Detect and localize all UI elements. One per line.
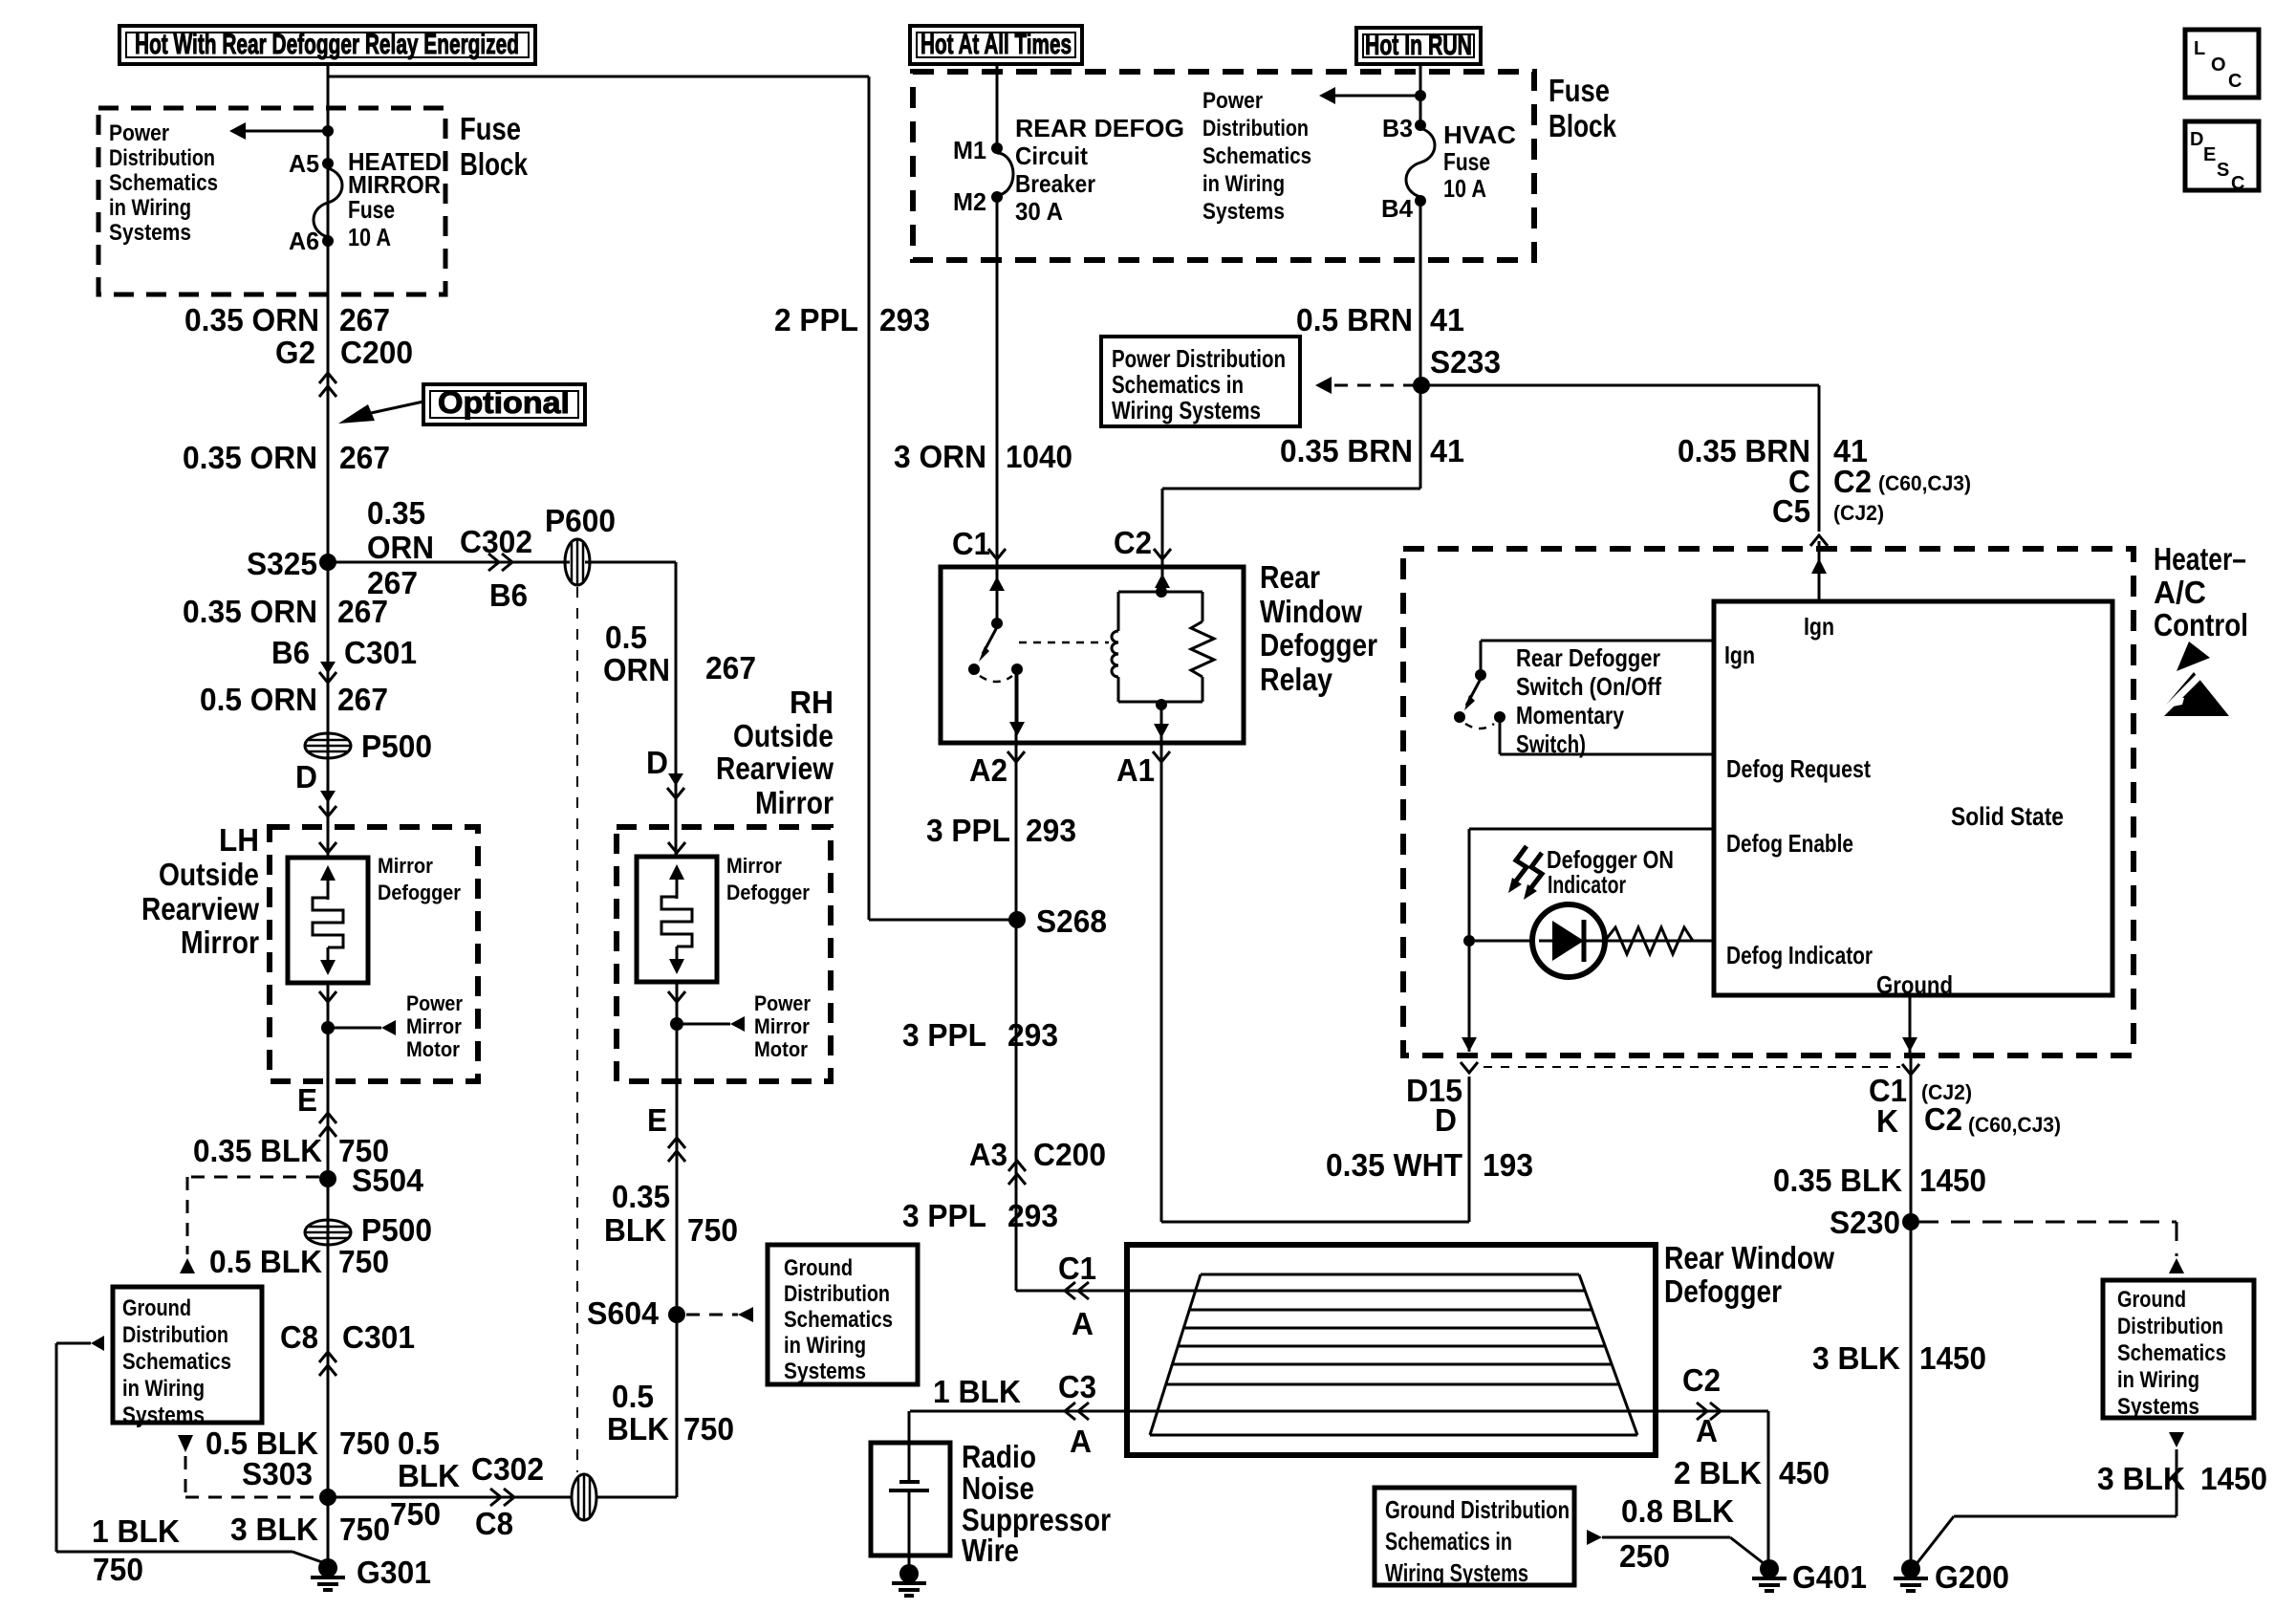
svg-text:Mirror: Mirror: [754, 1014, 810, 1038]
svg-text:0.35: 0.35: [612, 1179, 670, 1214]
svg-text:Wire: Wire: [962, 1533, 1019, 1568]
svg-text:in Wiring: in Wiring: [109, 195, 191, 221]
svg-text:Heater–: Heater–: [2154, 541, 2246, 577]
svg-text:0.35 ORN: 0.35 ORN: [184, 302, 319, 337]
svg-text:3 BLK: 3 BLK: [230, 1512, 318, 1547]
svg-text:750: 750: [683, 1411, 734, 1447]
svg-text:ORN: ORN: [367, 530, 434, 565]
svg-text:S268: S268: [1036, 903, 1107, 939]
svg-text:A6: A6: [289, 227, 319, 255]
svg-text:Distribution: Distribution: [1202, 116, 1309, 141]
svg-text:Rearview: Rearview: [716, 751, 834, 786]
svg-text:Defogger: Defogger: [1260, 627, 1377, 663]
svg-text:0.5 ORN: 0.5 ORN: [200, 682, 317, 717]
svg-text:0.35 BRN: 0.35 BRN: [1280, 433, 1413, 468]
svg-text:LH: LH: [219, 822, 259, 858]
svg-text:E: E: [2203, 144, 2216, 165]
svg-text:Solid State: Solid State: [1951, 802, 2064, 831]
svg-text:Schematics: Schematics: [2117, 1340, 2226, 1366]
svg-text:Power: Power: [1202, 88, 1263, 114]
svg-text:41: 41: [1430, 433, 1464, 468]
svg-text:C: C: [2228, 71, 2242, 92]
svg-text:Block: Block: [1549, 108, 1617, 143]
svg-text:0.5 BRN: 0.5 BRN: [1296, 302, 1413, 337]
svg-text:Breaker: Breaker: [1015, 169, 1095, 198]
svg-text:Systems: Systems: [784, 1359, 866, 1384]
svg-text:3 PPL: 3 PPL: [902, 1198, 986, 1233]
svg-text:D: D: [2190, 129, 2203, 150]
svg-text:(C60,CJ3): (C60,CJ3): [1968, 1113, 2061, 1137]
svg-text:293: 293: [879, 302, 930, 337]
svg-text:P600: P600: [545, 503, 616, 538]
svg-text:Switch): Switch): [1516, 729, 1586, 758]
svg-text:Schematics: Schematics: [122, 1349, 231, 1375]
svg-text:750: 750: [687, 1212, 738, 1248]
svg-text:Ground: Ground: [1876, 970, 1953, 999]
svg-text:3 BLK: 3 BLK: [2097, 1461, 2185, 1496]
svg-text:1450: 1450: [2200, 1461, 2267, 1496]
svg-text:Distribution: Distribution: [2117, 1314, 2223, 1339]
svg-text:3 PPL: 3 PPL: [926, 813, 1010, 848]
svg-text:C200: C200: [340, 335, 413, 370]
svg-text:Distribution: Distribution: [109, 145, 215, 171]
svg-text:A: A: [1072, 1306, 1094, 1341]
svg-text:Hot In RUN: Hot In RUN: [1365, 30, 1472, 61]
svg-text:Optional: Optional: [438, 385, 570, 420]
svg-text:1 BLK: 1 BLK: [92, 1513, 180, 1549]
svg-text:A2: A2: [969, 752, 1007, 788]
svg-text:S604: S604: [587, 1295, 660, 1331]
svg-text:Mirror: Mirror: [181, 925, 259, 960]
svg-text:C1: C1: [952, 526, 990, 561]
svg-text:C5: C5: [1772, 493, 1810, 529]
svg-text:G401: G401: [1792, 1559, 1867, 1595]
svg-text:C2: C2: [1682, 1362, 1721, 1398]
svg-text:Defog Enable: Defog Enable: [1726, 829, 1853, 858]
svg-text:3 BLK: 3 BLK: [1812, 1340, 1900, 1376]
svg-text:Fuse: Fuse: [348, 195, 395, 224]
svg-text:0.35 BLK: 0.35 BLK: [1773, 1163, 1902, 1198]
svg-text:Motor: Motor: [406, 1037, 460, 1061]
svg-text:Power Distribution: Power Distribution: [1112, 344, 1286, 373]
svg-text:10 A: 10 A: [1443, 174, 1486, 203]
svg-text:Indicator: Indicator: [1548, 870, 1626, 899]
svg-text:Power: Power: [754, 991, 811, 1015]
svg-text:S233: S233: [1430, 344, 1501, 380]
svg-text:750: 750: [339, 1512, 390, 1547]
svg-text:3 ORN: 3 ORN: [894, 439, 986, 474]
svg-text:0.5 BLK: 0.5 BLK: [209, 1244, 322, 1279]
svg-text:E: E: [647, 1102, 667, 1138]
svg-text:B6: B6: [271, 635, 310, 670]
svg-text:Ground: Ground: [2117, 1287, 2186, 1313]
svg-text:Rearview: Rearview: [141, 891, 259, 926]
svg-text:1450: 1450: [1919, 1163, 1986, 1198]
svg-text:B3: B3: [1382, 114, 1413, 142]
svg-text:3 PPL: 3 PPL: [902, 1017, 986, 1053]
svg-text:in Wiring: in Wiring: [784, 1333, 866, 1359]
svg-text:BLK: BLK: [607, 1411, 669, 1447]
svg-text:M1: M1: [953, 136, 986, 164]
svg-text:M2: M2: [953, 187, 986, 216]
svg-text:Systems: Systems: [2117, 1394, 2199, 1420]
svg-text:Fuse: Fuse: [1549, 73, 1610, 108]
svg-text:Schematics: Schematics: [784, 1307, 893, 1333]
svg-text:B4: B4: [1381, 194, 1414, 223]
svg-text:Schematics in: Schematics in: [1112, 370, 1244, 399]
svg-text:(CJ2): (CJ2): [1833, 501, 1884, 525]
svg-text:0.35 WHT: 0.35 WHT: [1326, 1147, 1462, 1183]
svg-text:C3: C3: [1058, 1369, 1096, 1404]
svg-text:Block: Block: [460, 146, 529, 182]
svg-text:193: 193: [1483, 1147, 1533, 1183]
svg-text:ORN: ORN: [603, 652, 670, 687]
svg-text:A: A: [1696, 1413, 1718, 1448]
svg-text:C200: C200: [1033, 1137, 1106, 1172]
svg-text:Motor: Motor: [754, 1037, 808, 1061]
svg-text:Radio: Radio: [962, 1439, 1036, 1474]
svg-text:A1: A1: [1116, 752, 1155, 788]
svg-text:Defog Indicator: Defog Indicator: [1726, 941, 1873, 969]
svg-text:C2: C2: [1924, 1101, 1962, 1137]
svg-text:K: K: [1876, 1103, 1898, 1139]
svg-text:Hot With Rear Defogger Relay E: Hot With Rear Defogger Relay Energized: [135, 29, 519, 60]
svg-text:REAR DEFOG: REAR DEFOG: [1015, 114, 1184, 142]
svg-text:A: A: [1070, 1424, 1092, 1459]
svg-text:Defogger: Defogger: [1664, 1273, 1782, 1309]
svg-text:BLK: BLK: [604, 1212, 666, 1248]
svg-text:Rear Defogger: Rear Defogger: [1516, 643, 1660, 672]
svg-text:Distribution: Distribution: [122, 1322, 228, 1348]
svg-text:Hot At All Times: Hot At All Times: [921, 29, 1072, 60]
svg-text:O: O: [2211, 54, 2226, 76]
svg-text:Mirror: Mirror: [726, 854, 782, 878]
svg-text:2 PPL: 2 PPL: [774, 302, 858, 337]
svg-text:Control: Control: [2154, 607, 2248, 642]
svg-text:Wiring Systems: Wiring Systems: [1385, 1558, 1528, 1587]
svg-text:0.5: 0.5: [605, 620, 647, 655]
svg-text:1 BLK: 1 BLK: [933, 1374, 1021, 1409]
svg-text:Systems: Systems: [122, 1403, 205, 1428]
svg-text:C301: C301: [342, 1319, 415, 1355]
svg-text:Ground: Ground: [122, 1295, 191, 1321]
svg-text:Systems: Systems: [109, 220, 191, 246]
svg-text:G200: G200: [1935, 1559, 2009, 1595]
svg-text:L: L: [2194, 38, 2205, 59]
svg-text:Relay: Relay: [1260, 662, 1333, 697]
svg-text:Switch (On/Off: Switch (On/Off: [1516, 672, 1661, 701]
svg-text:Systems: Systems: [1202, 199, 1285, 225]
svg-text:Rear Window: Rear Window: [1664, 1240, 1834, 1275]
svg-text:Mirror: Mirror: [406, 1014, 462, 1038]
svg-text:267: 267: [339, 440, 390, 475]
svg-text:Schematics: Schematics: [109, 170, 218, 196]
svg-text:G2: G2: [275, 335, 315, 370]
svg-text:A3: A3: [969, 1137, 1007, 1172]
svg-text:Schematics: Schematics: [1202, 143, 1311, 169]
svg-text:P500: P500: [361, 1212, 432, 1248]
svg-text:Ign: Ign: [1804, 612, 1834, 641]
svg-text:267: 267: [337, 682, 388, 717]
svg-text:Defog Request: Defog Request: [1726, 754, 1871, 783]
svg-text:Power: Power: [109, 120, 169, 146]
svg-text:in Wiring: in Wiring: [2117, 1367, 2199, 1393]
svg-text:C302: C302: [471, 1451, 544, 1487]
svg-text:S: S: [2217, 160, 2229, 181]
svg-text:P500: P500: [361, 729, 432, 764]
svg-text:0.5: 0.5: [612, 1379, 654, 1414]
svg-text:250: 250: [1619, 1538, 1670, 1574]
svg-text:0.35 BLK: 0.35 BLK: [193, 1133, 322, 1168]
svg-text:1450: 1450: [1919, 1340, 1986, 1376]
svg-text:Fuse: Fuse: [460, 111, 521, 146]
svg-text:Circuit: Circuit: [1015, 141, 1088, 170]
svg-text:C1: C1: [1058, 1251, 1096, 1286]
svg-text:in Wiring: in Wiring: [1202, 171, 1285, 197]
svg-text:Ground Distribution: Ground Distribution: [1385, 1495, 1570, 1524]
svg-text:A5: A5: [289, 149, 319, 178]
svg-text:D: D: [1435, 1102, 1457, 1138]
svg-text:B6: B6: [489, 577, 528, 613]
svg-text:S230: S230: [1830, 1205, 1900, 1240]
svg-text:293: 293: [1007, 1017, 1058, 1053]
svg-text:Noise: Noise: [962, 1470, 1034, 1506]
svg-text:RH: RH: [790, 685, 834, 720]
svg-text:750: 750: [93, 1552, 143, 1587]
svg-text:D: D: [646, 745, 668, 780]
svg-text:Defogger: Defogger: [726, 881, 810, 904]
svg-text:750: 750: [390, 1496, 441, 1532]
svg-text:D: D: [295, 759, 317, 794]
svg-text:0.8 BLK: 0.8 BLK: [1621, 1493, 1734, 1529]
svg-text:Mirror: Mirror: [755, 785, 834, 820]
svg-text:HVAC: HVAC: [1443, 120, 1516, 149]
svg-text:1040: 1040: [1006, 439, 1072, 474]
svg-text:Power: Power: [406, 991, 463, 1015]
svg-text:G301: G301: [357, 1555, 431, 1590]
svg-text:C302: C302: [460, 524, 532, 559]
svg-text:30 A: 30 A: [1015, 197, 1063, 226]
svg-text:41: 41: [1430, 302, 1464, 337]
svg-text:Window: Window: [1260, 594, 1362, 629]
svg-text:0.35 ORN: 0.35 ORN: [183, 440, 317, 475]
svg-text:Schematics in: Schematics in: [1385, 1527, 1512, 1556]
svg-text:Ign: Ign: [1724, 641, 1755, 669]
svg-text:Rear: Rear: [1260, 559, 1320, 595]
svg-text:Outside: Outside: [733, 718, 834, 753]
svg-text:750: 750: [338, 1244, 389, 1279]
svg-text:C8: C8: [475, 1506, 513, 1541]
svg-text:C301: C301: [344, 635, 417, 670]
svg-text:267: 267: [337, 594, 388, 629]
svg-text:C2: C2: [1114, 525, 1152, 560]
svg-text:267: 267: [339, 302, 390, 337]
svg-text:E: E: [297, 1082, 317, 1118]
svg-text:Ground: Ground: [784, 1255, 853, 1281]
svg-text:750: 750: [339, 1425, 390, 1461]
svg-text:S303: S303: [242, 1456, 313, 1491]
svg-text:Outside: Outside: [159, 857, 259, 892]
svg-text:A/C: A/C: [2154, 575, 2206, 610]
svg-text:C2: C2: [1833, 464, 1872, 499]
svg-text:10 A: 10 A: [348, 223, 391, 251]
svg-text:S325: S325: [247, 546, 317, 581]
svg-text:(C60,CJ3): (C60,CJ3): [1878, 471, 1971, 495]
svg-text:in Wiring: in Wiring: [122, 1376, 205, 1402]
svg-text:Fuse: Fuse: [1443, 147, 1490, 176]
svg-text:0.35 ORN: 0.35 ORN: [183, 594, 317, 629]
svg-text:S504: S504: [352, 1163, 424, 1198]
svg-text:C8: C8: [280, 1319, 318, 1355]
svg-text:0.5: 0.5: [398, 1425, 440, 1461]
svg-text:293: 293: [1007, 1198, 1058, 1233]
svg-text:Distribution: Distribution: [784, 1281, 890, 1307]
svg-text:267: 267: [705, 650, 756, 685]
svg-text:Mirror: Mirror: [378, 854, 433, 878]
svg-text:293: 293: [1026, 813, 1076, 848]
svg-text:BLK: BLK: [398, 1458, 460, 1493]
svg-text:Defogger: Defogger: [378, 881, 461, 904]
svg-text:2 BLK: 2 BLK: [1674, 1455, 1762, 1490]
svg-text:Momentary: Momentary: [1516, 701, 1624, 729]
svg-text:Wiring Systems: Wiring Systems: [1112, 396, 1261, 424]
svg-text:C: C: [2231, 173, 2244, 194]
svg-text:450: 450: [1779, 1455, 1830, 1490]
svg-text:0.35: 0.35: [367, 495, 425, 531]
